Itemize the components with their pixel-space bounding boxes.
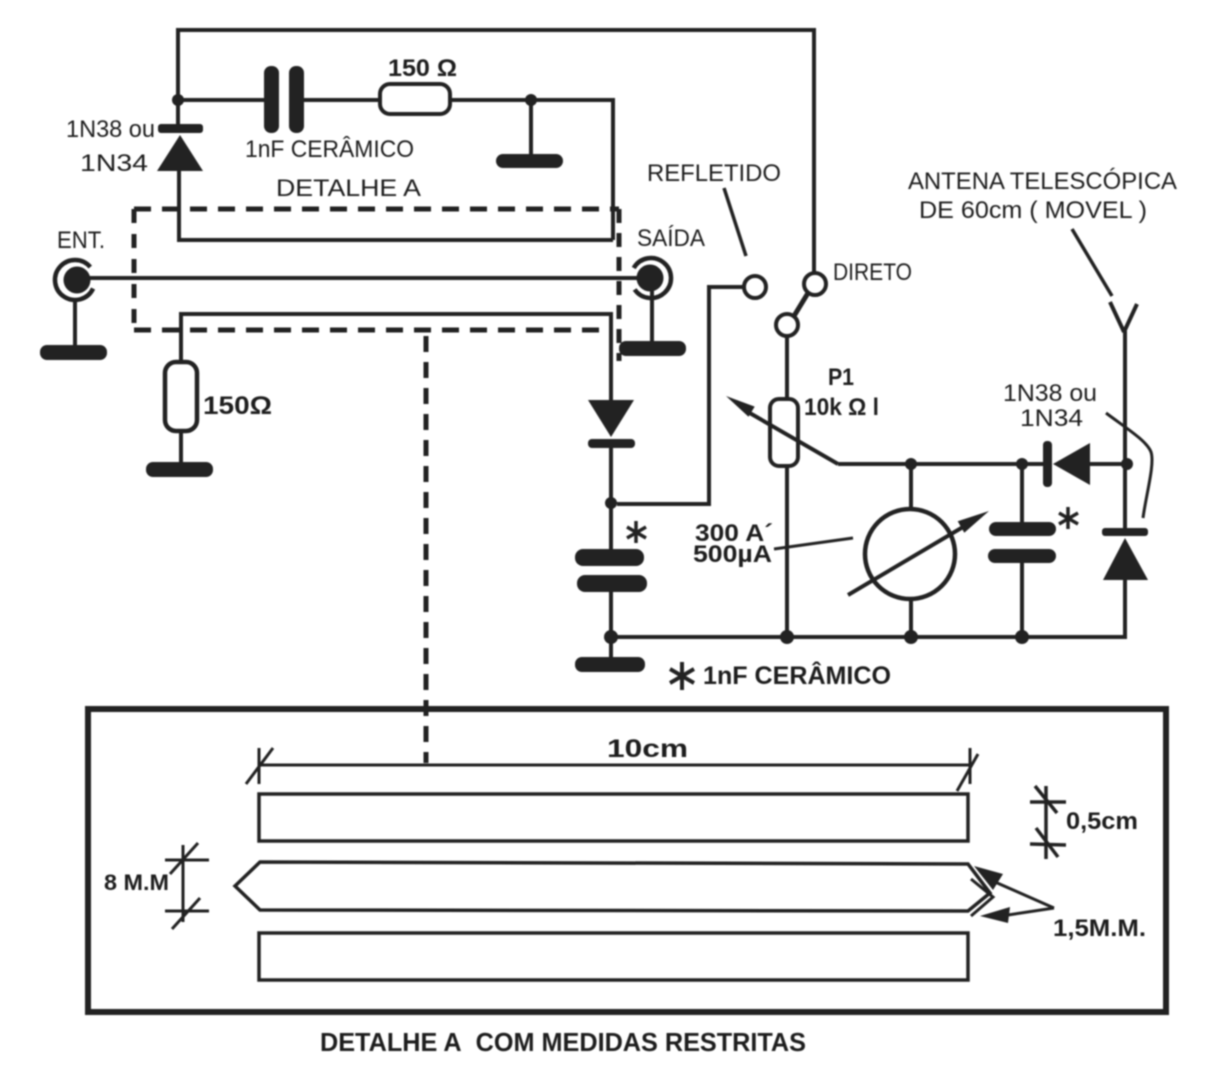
- potentiometer P1 body: [770, 399, 798, 637]
- detail upper strip: [259, 794, 968, 841]
- svg-text:DETALHE A COM MEDIDAS RESTRIT: DETALHE A COM MEDIDAS RESTRITAS: [320, 1027, 806, 1057]
- node A junction dot: [172, 94, 184, 106]
- rail junction dot at C3: [1015, 630, 1029, 644]
- bottom rail wire: [611, 635, 1127, 639]
- svg-text:1N34: 1N34: [1020, 405, 1083, 432]
- rail junction dot at P1: [780, 630, 794, 644]
- label DE 60cm (MOVEL): [919, 197, 1147, 224]
- svg-text:1nF CERÂMICO: 1nF CERÂMICO: [703, 660, 891, 690]
- capacitor C3 feedthrough 1nF: [988, 464, 1056, 637]
- label ENT.: [57, 227, 105, 254]
- svg-text:DIRETO: DIRETO: [833, 259, 912, 286]
- label REFLETIDO: [647, 160, 781, 187]
- label P1: [828, 364, 854, 391]
- rail junction dot at meter: [904, 630, 918, 644]
- junction dot C3 tap: [1016, 458, 1028, 470]
- capacitor C1 1nF ceramic (series): [264, 66, 304, 133]
- label D3 1N34: [1020, 405, 1083, 432]
- wire resistor R1 to node B and to upper strip right riser: [450, 100, 613, 240]
- label 0,5cm: [1066, 808, 1138, 835]
- potentiometer P1 wiper arrow: [726, 396, 838, 464]
- svg-text:ENT.: ENT.: [57, 227, 105, 254]
- svg-text:P1: P1: [828, 364, 854, 391]
- svg-text:1N34: 1N34: [80, 150, 148, 177]
- antenna telescopic: [1110, 302, 1137, 464]
- leader squiggle to diode D4: [1106, 413, 1152, 518]
- dimension line 10cm: [246, 748, 978, 791]
- leader antenna label: [1072, 229, 1112, 296]
- label P1 value 10k ohm: [804, 394, 879, 421]
- dashed box DETALHE A: [134, 209, 619, 361]
- dimension 8MM: [165, 843, 209, 929]
- label 1,5M.M.: [1053, 915, 1146, 942]
- svg-text:0,5cm: 0,5cm: [1066, 808, 1138, 835]
- dashed leader from detail box to measured drawing: [424, 336, 429, 763]
- wire pivot to potentiometer P1: [785, 336, 789, 399]
- wire top bus from node A to switch DIRETO: [178, 30, 814, 273]
- label DETALHE A: [276, 175, 421, 202]
- switch lever: [794, 293, 808, 316]
- wire REFLETIDO contact to node C: [617, 287, 744, 504]
- node C junction dot: [605, 497, 617, 509]
- ground at node B: [496, 154, 563, 168]
- svg-text:150 Ω: 150 Ω: [388, 55, 457, 82]
- diode D2 (anode from lower strip, cathode bar down): [588, 400, 635, 503]
- node D junction dot: [1121, 458, 1133, 470]
- asterisk mark at C2: [627, 521, 646, 543]
- detail drawing outer box: [88, 709, 1166, 1012]
- ground at R2: [146, 462, 213, 477]
- resistor R2 150 ohm: [165, 362, 197, 431]
- connector SAIDA: [634, 258, 671, 298]
- label meter 300 A: [695, 520, 773, 547]
- svg-text:REFLETIDO: REFLETIDO: [647, 160, 781, 187]
- svg-text:500µA: 500µA: [693, 541, 772, 568]
- caption DETALHE A COM MEDIDAS RESTRITAS: [320, 1027, 806, 1057]
- svg-text:DE 60cm ( MOVEL ): DE 60cm ( MOVEL ): [919, 197, 1147, 224]
- label ANTENA TELESCOPICA: [908, 168, 1177, 195]
- meter M1 300/500uA: [848, 464, 989, 637]
- legend text 1nF CERAMICO: [703, 660, 891, 690]
- arrows 1,5MM to strip tip: [974, 866, 1054, 923]
- wire SAIDA shell to ground: [650, 291, 654, 342]
- svg-text:1N38 ou: 1N38 ou: [1003, 380, 1097, 407]
- svg-text:1nF CERÂMICO: 1nF CERÂMICO: [245, 136, 414, 163]
- ground at ENT: [40, 345, 107, 360]
- label D1 1N34: [80, 150, 148, 177]
- detail lower strip: [259, 933, 968, 980]
- svg-text:1,5M.M.: 1,5M.M.: [1053, 915, 1146, 942]
- wire ENT shell to ground: [73, 298, 77, 346]
- leader REFLETIDO to contact: [724, 188, 746, 256]
- diode D4 shunt (cathode bar up): [1102, 464, 1148, 637]
- label DIRETO: [833, 259, 912, 286]
- resistor R1 150 ohm: [380, 84, 450, 114]
- node B junction dot: [525, 94, 537, 106]
- legend asterisk: [670, 662, 694, 690]
- svg-text:10cm: 10cm: [607, 735, 688, 763]
- asterisk mark at C3: [1059, 507, 1078, 529]
- svg-text:10k Ω l: 10k Ω l: [804, 394, 879, 421]
- lower pickup strip (detail A): [181, 314, 611, 400]
- label D1 1N38 ou: [66, 116, 155, 143]
- label SAIDA: [637, 225, 705, 252]
- label D3 1N38 ou: [1003, 380, 1097, 407]
- svg-text:8 M.M: 8 M.M: [104, 870, 169, 895]
- switch contact REFLETIDO: [744, 276, 766, 298]
- connector ENT: [55, 260, 93, 300]
- label R2 value 150 ohm: [203, 392, 272, 420]
- ground at SAIDA: [619, 341, 686, 356]
- dimension 0,5cm: [1030, 786, 1066, 859]
- diode D1 1N38/1N34 (cathode bar up): [157, 124, 203, 171]
- svg-text:DETALHE A: DETALHE A: [276, 175, 421, 202]
- svg-text:ANTENA TELESCÓPICA: ANTENA TELESCÓPICA: [908, 168, 1177, 195]
- label R1 value 150 ohm: [388, 55, 457, 82]
- chevron gap mark at strip tip: [971, 879, 993, 916]
- capacitor C2 feedthrough 1nF: [575, 503, 647, 637]
- svg-text:SAÍDA: SAÍDA: [637, 225, 705, 252]
- switch contact DIRETO: [804, 273, 826, 295]
- main line ENT to SAIDA: [80, 276, 645, 280]
- label 8MM: [104, 870, 169, 895]
- junction dot meter tap: [905, 458, 917, 470]
- wire R2 to ground: [179, 431, 183, 463]
- ground at C2 / rail: [575, 637, 645, 672]
- wire capacitor C1 to resistor R1: [304, 98, 380, 102]
- upper pickup strip (detail A): [179, 171, 613, 240]
- label 10cm: [607, 735, 688, 763]
- wire node A to capacitor C1: [178, 98, 264, 102]
- wire wiper to meter bus: [838, 462, 1045, 466]
- svg-text:150Ω: 150Ω: [203, 392, 272, 420]
- switch pole pivot: [776, 314, 798, 336]
- leader label to meter: [774, 538, 853, 549]
- label C1 value 1nF CERAMICO: [245, 136, 414, 163]
- svg-text:1N38 ou: 1N38 ou: [66, 116, 155, 143]
- label meter 500uA: [693, 541, 772, 568]
- wire node B down to ground: [529, 100, 533, 154]
- diode D3 1N38/1N34 (series, cathode left): [1043, 441, 1127, 487]
- rail junction dot at C2: [604, 630, 618, 644]
- detail middle strip pointed: [235, 862, 990, 911]
